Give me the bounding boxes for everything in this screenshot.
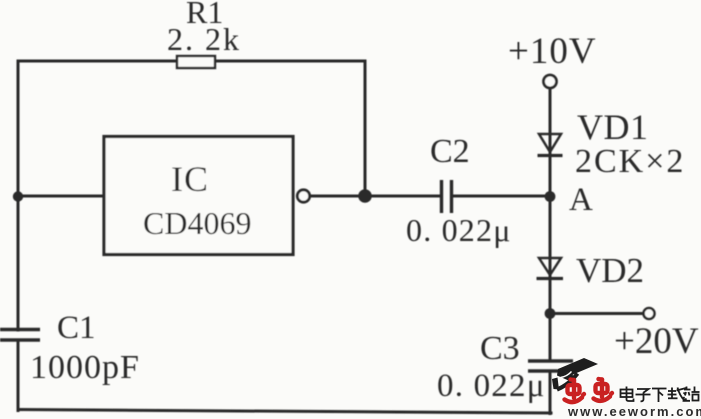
svg-text:C2: C2 [430,133,470,170]
svg-text:2CK×2: 2CK×2 [575,143,685,180]
svg-text:C3: C3 [480,330,520,367]
svg-text:C1: C1 [57,310,96,346]
svg-text:A: A [569,182,593,218]
svg-text:+20V: +20V [614,321,699,362]
svg-text:0. 022μ: 0. 022μ [406,212,512,248]
svg-text:+10V: +10V [508,31,597,72]
svg-text:CD4069: CD4069 [143,205,251,241]
svg-text:1000pF: 1000pF [30,349,140,386]
svg-text:www.eeworm.com: www.eeworm.com [567,404,701,419]
svg-text:IC: IC [171,159,209,199]
svg-text:0. 022μ: 0. 022μ [437,368,546,404]
svg-text:2. 2k: 2. 2k [167,21,241,57]
svg-text:VD1: VD1 [577,107,649,147]
svg-text:VD2: VD2 [576,251,644,290]
